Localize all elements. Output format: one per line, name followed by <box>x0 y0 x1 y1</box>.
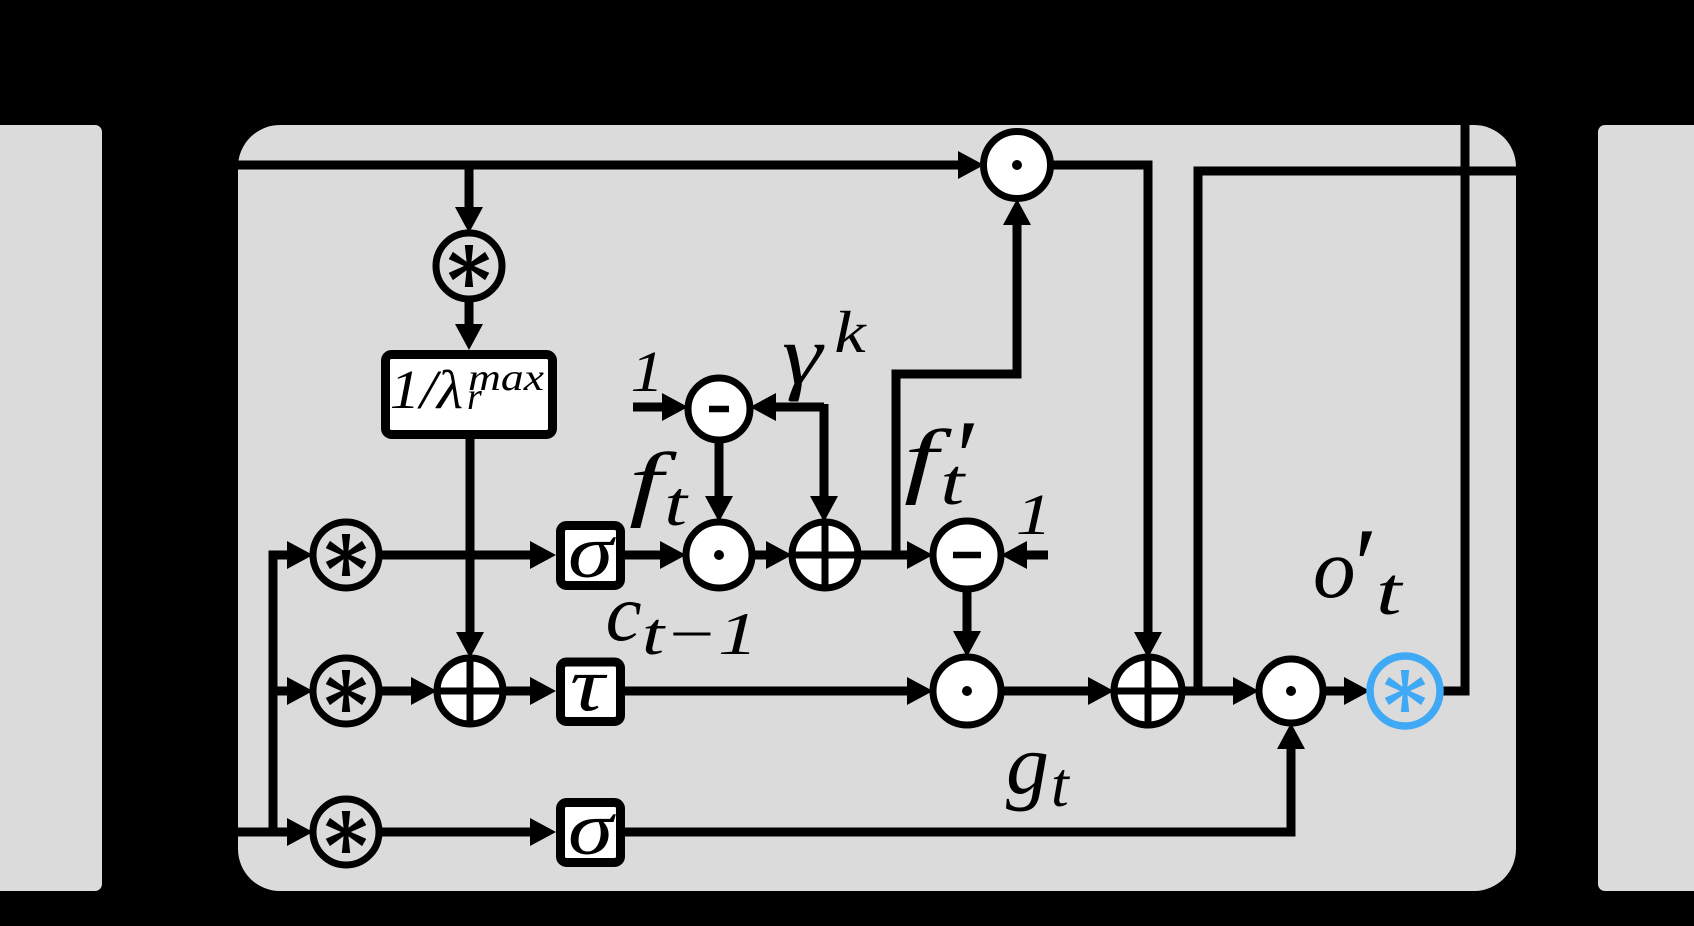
svg-text:t: t <box>1376 554 1404 629</box>
svg-text:r: r <box>467 376 482 418</box>
svg-text:g: g <box>1006 716 1049 812</box>
svg-text:t: t <box>1051 749 1071 820</box>
svg-text:′: ′ <box>1348 506 1373 623</box>
svg-text:τ: τ <box>570 641 608 727</box>
svg-text:1: 1 <box>1016 483 1052 547</box>
svg-text:t−1: t−1 <box>642 601 758 667</box>
svg-text:1: 1 <box>631 339 664 404</box>
svg-text:t: t <box>664 468 688 539</box>
svg-text:1/λ: 1/λ <box>390 359 463 421</box>
svg-text:σ: σ <box>568 787 617 871</box>
svg-text:t: t <box>940 445 966 518</box>
svg-text:k: k <box>834 300 867 365</box>
svg-text:γ: γ <box>782 308 825 402</box>
svg-text:σ: σ <box>568 510 617 594</box>
